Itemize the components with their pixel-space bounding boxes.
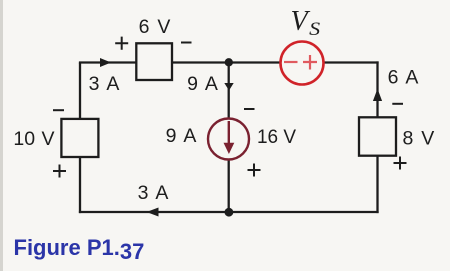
- current arrow 3 A (bottom wire, pointing left): [147, 208, 159, 217]
- svg-text:6 A: 6 A: [388, 67, 419, 89]
- svg-text:Figure P1.37: Figure P1.37: [14, 235, 145, 264]
- svg-text:10 V: 10 V: [13, 128, 54, 150]
- current arrow 3 A (top wire, pointing right): [100, 58, 111, 67]
- svg-text:3 A: 3 A: [138, 182, 169, 204]
- node junction dot top: [225, 58, 233, 66]
- minus sign above 10 V box: [53, 109, 64, 111]
- current arrow 9 A (middle wire, pointing down): [224, 83, 233, 91]
- node junction dot bottom: [225, 208, 234, 217]
- element box 6 V (top): [136, 43, 172, 80]
- plus sign left of 6 V box: [115, 37, 128, 50]
- element box 8 V (right): [359, 117, 396, 155]
- minus sign right of 6 V box: [181, 42, 192, 44]
- wire: top horizontal left segment (corner to 6V box): [79, 61, 136, 63]
- wire: middle vertical lower (current source to bottom junction): [228, 160, 230, 213]
- arrow inside current source (pointing down): [228, 121, 230, 144]
- wire: right vertical upper (corner to 8V box): [376, 61, 378, 117]
- wire: bottom horizontal: [79, 211, 379, 213]
- current arrow 6 A (right wire, pointing up): [373, 89, 382, 101]
- svg-text:9 A: 9 A: [166, 125, 197, 147]
- wire: left vertical upper (top corner to 10V box): [79, 63, 81, 120]
- wire: middle vertical upper (top junction to current source): [228, 63, 230, 120]
- plus sign inside VS: [303, 55, 317, 70]
- wire: top horizontal middle segment (6V box to VS circle): [172, 61, 282, 63]
- svg-text:16 V: 16 V: [257, 127, 296, 148]
- current source circle (dark red, middle): [208, 119, 249, 160]
- svg-text:9 A: 9 A: [187, 73, 218, 95]
- plus sign below 10 V box: [53, 165, 66, 178]
- wire: top horizontal right segment (VS circle to top-right corner): [323, 61, 379, 63]
- element box 10 V (left): [61, 119, 98, 157]
- wire: right vertical lower (8V box to bottom corner): [376, 156, 378, 213]
- minus sign above 8 V box: [392, 103, 403, 105]
- wire: left vertical lower (10V box to bottom corner): [79, 157, 81, 213]
- svg-text:6 V: 6 V: [139, 16, 171, 38]
- plus sign below 8 V box: [394, 157, 407, 170]
- svg-text:3 A: 3 A: [89, 73, 120, 95]
- minus sign inside VS: [284, 61, 298, 63]
- plus sign below 16 V: [248, 164, 261, 177]
- svg-text:8 V: 8 V: [403, 128, 435, 150]
- minus sign above 16 V: [244, 108, 255, 110]
- voltage source VS (red circle, top): [281, 42, 324, 85]
